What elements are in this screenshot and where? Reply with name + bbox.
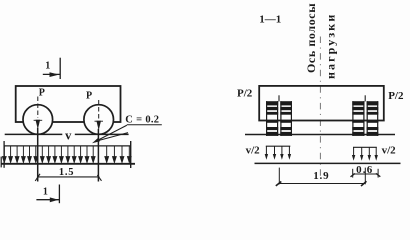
svg-text:0.6: 0.6	[356, 164, 373, 176]
svg-text:C = 0.2: C = 0.2	[125, 115, 159, 126]
svg-text:1: 1	[43, 187, 48, 198]
svg-text:v: v	[65, 128, 72, 142]
svg-text:P: P	[86, 90, 92, 101]
svg-text:v/2: v/2	[246, 145, 261, 157]
svg-text:P/2: P/2	[388, 90, 404, 102]
svg-text:P: P	[39, 87, 45, 98]
svg-text:1—1: 1—1	[259, 14, 281, 26]
svg-text:P/2: P/2	[237, 88, 253, 100]
svg-text:v/2: v/2	[382, 145, 397, 157]
svg-text:Ось полосы: Ось полосы	[304, 3, 318, 73]
svg-text:нагрузки: нагрузки	[324, 13, 338, 79]
svg-text:1: 1	[45, 60, 50, 71]
svg-text:1.5: 1.5	[59, 167, 75, 178]
svg-text:1.9: 1.9	[313, 170, 329, 182]
